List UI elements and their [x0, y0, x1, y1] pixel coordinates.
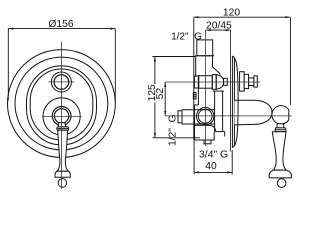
dim Ø156 line	[8, 28, 115, 30]
svg-text:40: 40	[205, 161, 217, 172]
handle hub circle	[43, 98, 80, 135]
knob disc1	[240, 72, 245, 91]
plate inner line	[233, 58, 235, 147]
diverter bulge collar	[212, 75, 216, 90]
screw detail	[193, 93, 196, 100]
body column upper left	[195, 56, 197, 77]
knob disc2	[244, 74, 248, 88]
diverter knob outer circle	[51, 72, 71, 92]
faceplate inner circle	[15, 57, 108, 150]
escutcheon oval outer	[27, 66, 97, 145]
body flange line	[195, 55, 214, 57]
knob cap	[254, 76, 257, 87]
dim 40 extension left	[193, 140, 195, 175]
lower body bottom	[195, 132, 215, 140]
knob centerline front	[48, 81, 74, 83]
dim 52 line	[164, 82, 166, 116]
escutcheon oval inner	[30, 69, 93, 140]
faceplate outer circle	[8, 50, 116, 158]
outlet nipple	[204, 140, 211, 144]
lever front: collar midline	[57, 128, 68, 130]
lower pipe cap	[178, 111, 182, 123]
lower pipe bore	[182, 110, 215, 124]
svg-text:3/4" G: 3/4" G	[199, 150, 228, 161]
lever front: collar	[57, 127, 69, 130]
svg-text:1/2" G: 1/2" G	[171, 31, 202, 42]
diverter knob inner circle	[54, 75, 69, 90]
knob stem	[249, 78, 254, 86]
inlet axis centerline	[205, 30, 207, 146]
dim Ø156 extension right	[114, 29, 116, 102]
lower body shelf 2	[216, 131, 225, 133]
dim 120 extension right	[289, 17, 291, 105]
port circle inner	[198, 109, 212, 123]
handle axis centerline	[165, 115, 292, 117]
lower body right step	[224, 132, 226, 137]
lever front: neck	[58, 123, 65, 127]
body step horizontal	[195, 104, 199, 106]
diverter axis centerline	[165, 81, 260, 83]
handle hub ring inner	[54, 109, 68, 123]
diverter cylinder	[198, 76, 212, 89]
handle tip ball side	[277, 179, 286, 188]
dim 40 extension right	[231, 150, 233, 175]
wall extension line	[229, 30, 231, 151]
body column mid left	[197, 88, 199, 105]
handle collar side	[275, 128, 286, 132]
cartridge housing top line	[213, 90, 224, 92]
dim 120 line	[194, 16, 291, 18]
diverter neck	[224, 78, 228, 85]
centerline vertical front view	[60, 42, 62, 189]
diverter valve left cap	[194, 76, 198, 88]
dim 125 bottom tick	[153, 137, 201, 139]
handle collar midline side	[276, 129, 286, 131]
handle neck side	[277, 124, 284, 128]
inlet block	[197, 40, 213, 56]
lower body shelf	[195, 124, 210, 126]
dim 125 top tick	[153, 56, 197, 58]
handle hub ring outer	[52, 107, 71, 126]
dim 20/45 line	[206, 29, 231, 31]
lower body left face	[194, 105, 196, 140]
handle bell base side	[269, 170, 291, 178]
svg-text:1/2" G: 1/2" G	[168, 114, 179, 146]
body flare diagonal	[213, 67, 220, 75]
dim 120 extension left / body face	[193, 17, 195, 140]
lever front: tip ball	[58, 179, 67, 188]
plate back line	[231, 56, 233, 148]
dim Ø156 extension left	[7, 29, 9, 101]
handle stem and bell side	[272, 132, 286, 170]
plate dome	[233, 56, 239, 148]
dim 40 line	[194, 171, 232, 173]
lower body corner arc	[209, 125, 215, 131]
lever front: stem and bell	[57, 130, 69, 171]
cartridge housing box	[215, 91, 223, 132]
lever front: bell base	[55, 171, 70, 177]
dim 125 line upper	[154, 57, 156, 85]
hub centerline front	[42, 116, 82, 118]
handle ball side	[272, 106, 289, 124]
handle cone side	[234, 100, 272, 125]
port circle outer	[196, 107, 214, 125]
dim 125 line lower	[154, 103, 156, 138]
body column upper right	[212, 56, 214, 67]
svg-text:52: 52	[155, 88, 166, 100]
diverter bulge dome	[216, 75, 223, 90]
